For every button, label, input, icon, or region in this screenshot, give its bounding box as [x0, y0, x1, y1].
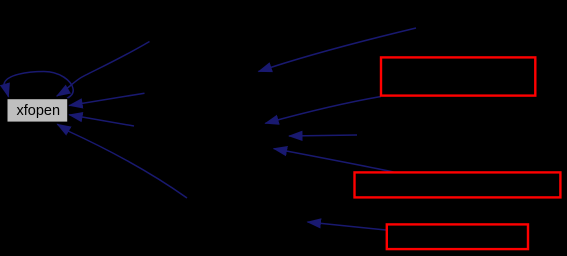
wire edge E: hidden node M4 -> xfopen (bottom-right corner) [57, 124, 187, 198]
wire self-loop edge on xfopen [4, 72, 73, 99]
wire edge H: hidden node N2 -> hidden node M3 [289, 135, 357, 136]
wire edge D: hidden node M3 -> xfopen (right side) [69, 115, 134, 126]
node xfopen (current function, grey box) [7, 99, 68, 122]
svg-text:xfopen: xfopen [17, 103, 61, 119]
wire edge C: hidden node M2 -> xfopen (right side) [69, 93, 144, 105]
wire edge B: hidden node M1 -> xfopen (top-right corner) [57, 42, 150, 97]
node R1: truncated caller (red box) [381, 57, 535, 95]
wire edge J: red node R3 -> hidden node M4 [308, 222, 387, 230]
wire edge F: hidden node N1 -> hidden node M1 [259, 28, 417, 72]
wire edge I: red node R2 -> hidden node M3 [274, 149, 394, 172]
node R3: truncated caller (red box) [387, 224, 528, 249]
wire edge G: red node R1 -> hidden node M2 [265, 97, 381, 124]
node R2: truncated caller (red box) [355, 172, 561, 197]
